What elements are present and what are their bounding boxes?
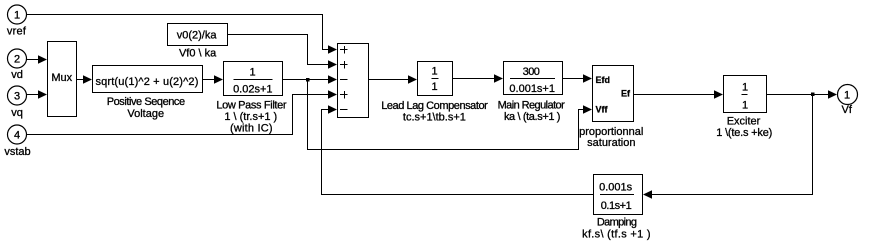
Main Regulator block: [504, 62, 563, 96]
svg-text:Ef: Ef: [621, 89, 631, 99]
input port 2: [8, 49, 27, 68]
arrow into sqrt block: [83, 75, 92, 83]
label Damping: [582, 217, 651, 241]
svg-text:0.001s+1: 0.001s+1: [509, 83, 555, 95]
wire Mux to sqrt block: [77, 79, 84, 81]
svg-text:Efd: Efd: [596, 75, 611, 85]
label Low Pass Filter: [216, 100, 286, 135]
label Positive Seqence Voltage: [107, 96, 185, 120]
sqrt block (Positive Sequence Voltage): [93, 66, 203, 93]
wire Damping output to sum input 5: [322, 110, 594, 195]
svg-text:Low Pass Filter: Low Pass Filter: [216, 100, 286, 112]
wire junction to Vff input (feedforward): [308, 81, 584, 150]
svg-text:tc.s+1\tb.s+1: tc.s+1\tb.s+1: [403, 112, 466, 124]
wire feedback from junction down to Damping: [652, 96, 813, 195]
svg-text:Voltage: Voltage: [127, 108, 164, 120]
arrow into Main Regulator: [494, 74, 503, 82]
svg-text:3: 3: [14, 91, 20, 103]
wire filter output to sum input 3: [283, 79, 329, 81]
junction node on Exciter output: [811, 93, 815, 97]
svg-text:Damping: Damping: [597, 217, 637, 229]
svg-text:Main Regulator: Main Regulator: [498, 100, 566, 112]
svg-text:1: 1: [14, 10, 20, 22]
svg-text:Positive Seqence: Positive Seqence: [107, 96, 185, 108]
Low Pass Filter block: [224, 62, 283, 96]
label Main Regulator: [498, 100, 566, 124]
sum block: [338, 44, 369, 118]
svg-text:1: 1: [742, 82, 748, 94]
svg-text:Exciter: Exciter: [727, 116, 761, 128]
wire sqrt to Low Pass Filter: [203, 79, 215, 81]
svg-text:1: 1: [249, 67, 255, 79]
svg-text:(with IC): (with IC): [230, 123, 273, 135]
arrow into output port: [828, 90, 837, 98]
arrow into Vff input: [583, 105, 592, 113]
constant block v0(2)/ka: [168, 24, 228, 46]
svg-text:v0(2)/ka: v0(2)/ka: [177, 30, 218, 42]
arrow into Low Pass Filter: [214, 75, 223, 83]
svg-text:saturation: saturation: [587, 137, 635, 149]
svg-text:ka \ (ta.s+1 ): ka \ (ta.s+1 ): [504, 111, 560, 123]
wire Main Regulator to Efd input: [563, 78, 584, 80]
input port 1: [8, 5, 27, 24]
svg-text:1 \ (tr.s+1 ): 1 \ (tr.s+1 ): [224, 111, 277, 123]
junction node on filter output: [306, 78, 310, 82]
Lead Lag Compensator block: [418, 62, 453, 96]
svg-text:1: 1: [432, 81, 438, 93]
svg-text:Vff: Vff: [596, 105, 609, 115]
svg-text:0.001s: 0.001s: [599, 182, 633, 194]
svg-text:300: 300: [523, 66, 540, 78]
label proportionnal saturation: [579, 126, 643, 149]
wire sum to Lead Lag Compensator: [369, 79, 409, 81]
wire vq to Mux: [27, 94, 39, 96]
wire Exciter to output port: [767, 94, 829, 96]
arrow into sum input 1: [328, 45, 337, 53]
svg-text:0.1s+1: 0.1s+1: [601, 200, 632, 212]
arrow into sum input 4: [328, 90, 337, 98]
svg-text:4: 4: [14, 130, 20, 142]
svg-text:vd: vd: [11, 69, 23, 81]
Mux block: [48, 42, 77, 117]
svg-text:sqrt(u(1)^2 + u(2)^2): sqrt(u(1)^2 + u(2)^2): [95, 76, 198, 88]
svg-text:vq: vq: [11, 107, 23, 119]
input port 4: [8, 125, 27, 144]
label Exciter: [716, 116, 772, 140]
arrow into Mux input 2: [38, 90, 47, 98]
svg-text:vstab: vstab: [4, 146, 30, 158]
wire Ef output to Exciter: [634, 94, 715, 96]
svg-text:1: 1: [844, 90, 850, 102]
svg-text:Vf0 \ ka: Vf0 \ ka: [179, 48, 217, 60]
svg-text:kf.s\ (tf.s +1 ): kf.s\ (tf.s +1 ): [582, 229, 651, 241]
wire vref to sum input 1: [27, 15, 329, 50]
wire vd to Mux: [27, 59, 39, 61]
arrow into Exciter: [714, 90, 723, 98]
input port 3: [8, 86, 27, 105]
svg-text:1: 1: [432, 66, 438, 78]
Exciter block: [724, 76, 767, 113]
wire vstab to sum input 4: [27, 95, 329, 135]
svg-text:Mux: Mux: [51, 72, 72, 84]
svg-text:Vf: Vf: [841, 104, 852, 116]
arrow into Efd input: [583, 74, 592, 82]
label Lead Lag Compensator: [381, 100, 488, 124]
arrow into Lead Lag Compensator: [408, 75, 417, 83]
arrow into sum input 5: [328, 105, 337, 113]
svg-text:0.02s+1: 0.02s+1: [233, 84, 272, 96]
arrow into Mux input 1: [38, 55, 47, 63]
svg-text:1 \(te.s +ke): 1 \(te.s +ke): [716, 127, 772, 139]
wire Lead Lag to Main Regulator: [453, 78, 495, 80]
wire constant to sum input 2: [228, 35, 329, 65]
svg-text:2: 2: [14, 54, 20, 66]
output port 1 (Vf): [838, 85, 858, 105]
arrow into sum input 3: [328, 75, 337, 83]
svg-text:1: 1: [742, 100, 748, 112]
svg-text:vref: vref: [7, 26, 27, 38]
arrow into sum input 2: [328, 60, 337, 68]
Damping block: [594, 175, 643, 215]
arrow into Damping (pointing left): [643, 190, 652, 198]
svg-text:Lead Lag Compensator: Lead Lag Compensator: [381, 100, 488, 112]
proportional saturation block: [593, 66, 634, 122]
